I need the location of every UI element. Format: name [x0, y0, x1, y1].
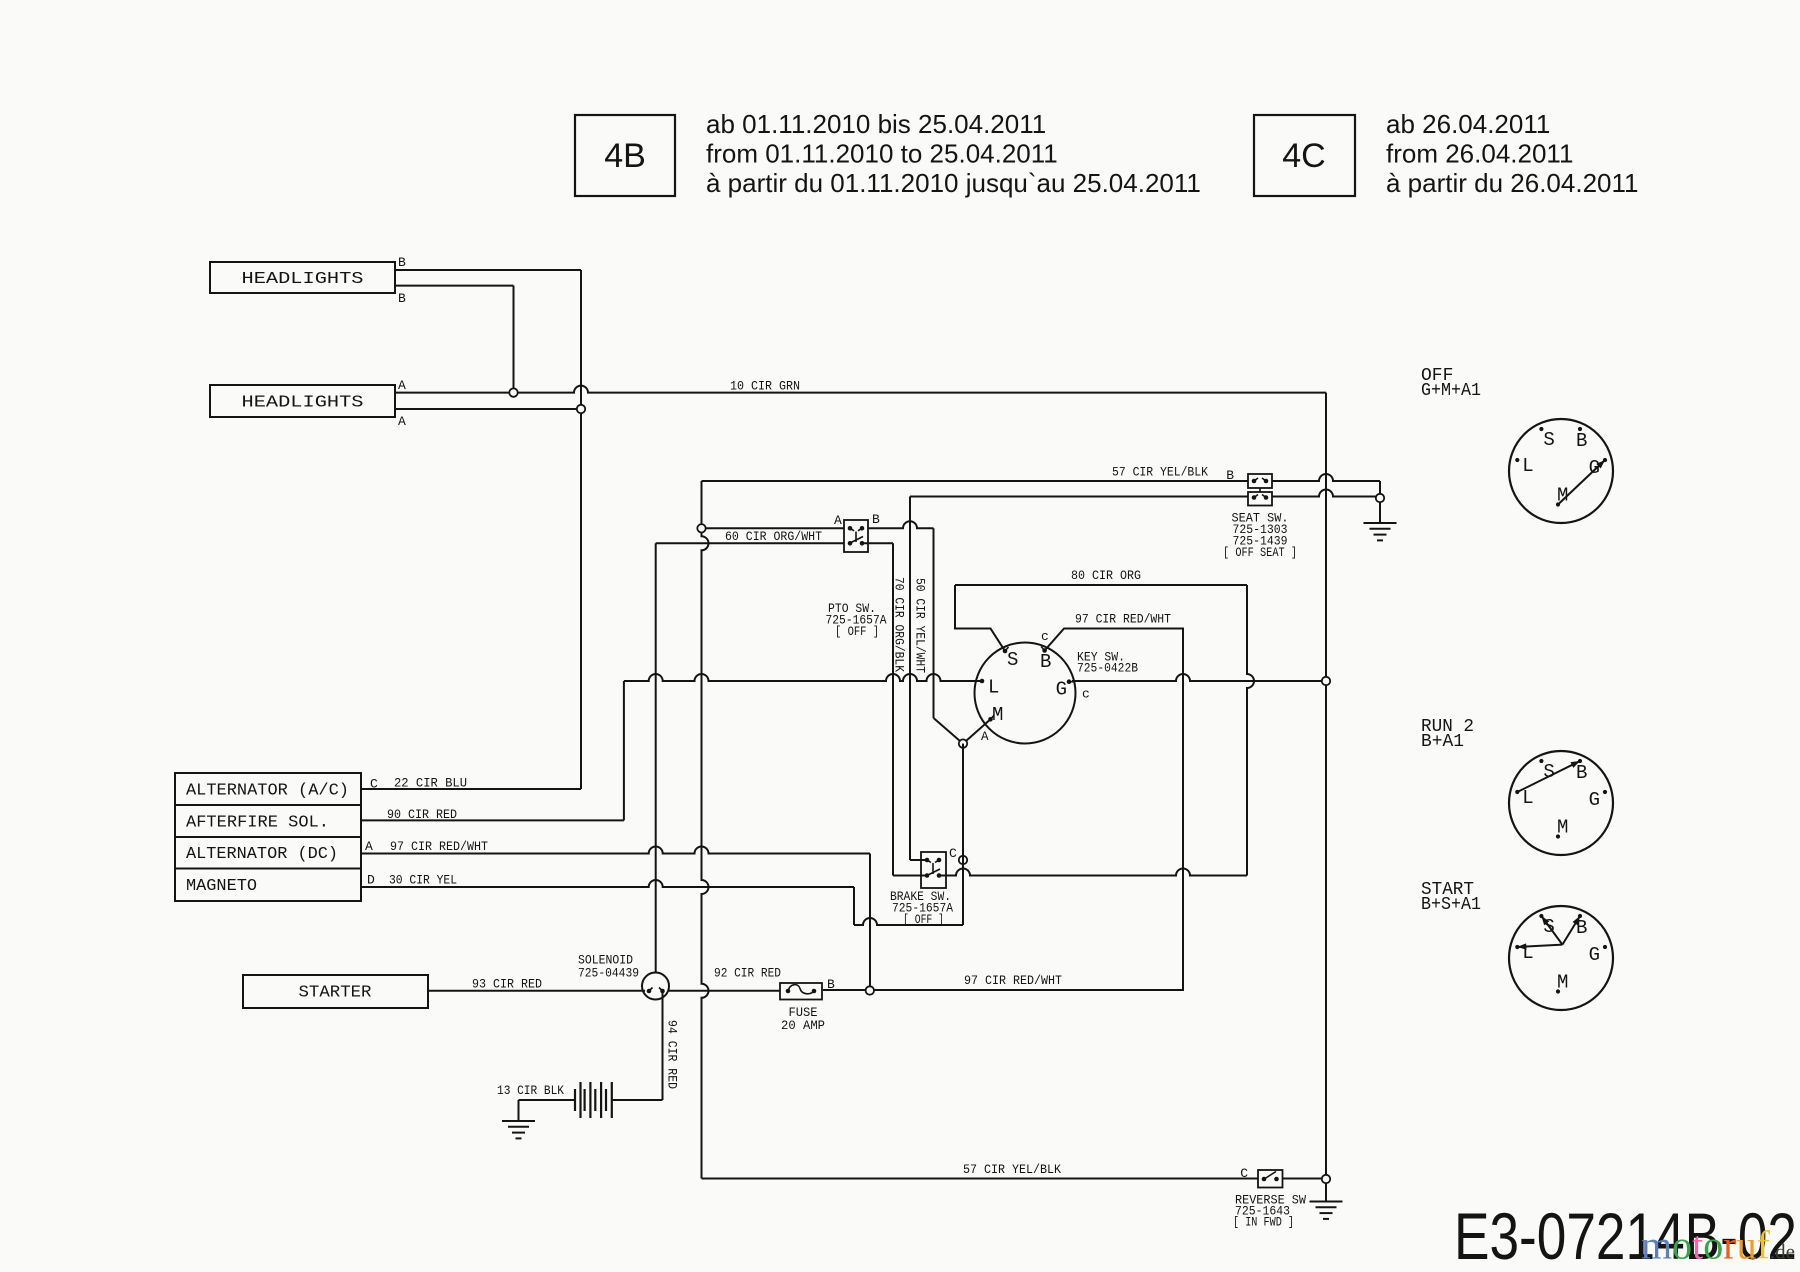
label 90 CIR RED: [387, 807, 457, 822]
wire vertical x910 50 CIR YEL/WHT: [909, 497, 911, 861]
pin label B lower: [398, 291, 406, 306]
wire PTO A to switch: [702, 527, 851, 529]
seat switch SEAT SW. 725-1303: [1248, 474, 1272, 506]
svg-text:B: B: [1040, 651, 1051, 673]
label brake switch: [890, 890, 953, 927]
label fuse: [781, 1006, 825, 1033]
svg-text:50 CIR YEL/WHT: 50 CIR YEL/WHT: [913, 578, 928, 673]
svg-text:97 CIR RED/WHT: 97 CIR RED/WHT: [964, 973, 1062, 988]
component ALTERNATOR (DC): [175, 837, 361, 869]
label 30 CIR YEL: [389, 873, 457, 888]
svg-text:L: L: [988, 677, 999, 699]
junction reverse ground: [1322, 1175, 1330, 1183]
svg-text:from 26.04.2011: from 26.04.2011: [1386, 139, 1573, 169]
wire brake top-left to x910: [910, 859, 927, 861]
wire reverse to ground junction: [1283, 1178, 1327, 1180]
component HEADLIGHTS upper: [210, 262, 395, 293]
wire ground vertical x1326: [1325, 393, 1327, 1179]
svg-text:D: D: [367, 873, 375, 888]
svg-text:HEADLIGHTS: HEADLIGHTS: [242, 393, 364, 412]
label 80 CIR ORG: [1071, 568, 1141, 583]
wire vertical x1247 80CIR to brake: [1247, 585, 1254, 876]
svg-text:G: G: [1056, 679, 1067, 701]
wire 93 CIR RED: [428, 990, 645, 992]
svg-text:L: L: [1522, 787, 1533, 809]
svg-text:[ OFF SEAT ]: [ OFF SEAT ]: [1223, 546, 1297, 560]
svg-text:MAGNETO: MAGNETO: [186, 877, 257, 896]
pin label B upper: [398, 255, 406, 270]
junction seat ground: [1376, 494, 1384, 502]
label 60 CIR ORG/WHT: [725, 529, 822, 544]
wire brake C to 80 CIR ORG riser: [939, 869, 1247, 876]
pin label A alternator DC: [365, 839, 373, 854]
wire x963 key A to brake: [962, 744, 964, 925]
label c near B: [1041, 629, 1049, 644]
wire key S feed: [955, 585, 1005, 651]
pin label D magneto: [367, 873, 375, 888]
svg-text:from 01.11.2010 to 25.04.2011: from 01.11.2010 to 25.04.2011: [706, 139, 1058, 169]
ground reverse switch: [1310, 1183, 1343, 1219]
svg-text:94 CIR RED: 94 CIR RED: [665, 1020, 680, 1089]
wire vertical x893 70 CIR ORG/BLK: [892, 543, 894, 875]
svg-text:B+S+A1: B+S+A1: [1421, 895, 1481, 915]
component HEADLIGHTS lower: [210, 385, 395, 417]
wire brake bottom-left to x893: [893, 875, 927, 877]
svg-text:M: M: [992, 704, 1003, 726]
svg-text:SOLENOID: SOLENOID: [578, 954, 633, 968]
svg-text:[ IN FWD ]: [ IN FWD ]: [1233, 1216, 1294, 1230]
key wire M to A junction: [963, 719, 991, 743]
wire headlights2 pin A bottom: [395, 408, 581, 410]
wire 57 CIR YEL/BLK bottom: [702, 1178, 1259, 1180]
wire vertical x623 bus to 90CIR: [623, 681, 625, 820]
svg-text:G: G: [1589, 944, 1600, 966]
svg-text:M: M: [1557, 972, 1568, 994]
svg-text:C: C: [949, 846, 957, 861]
wire bus key G to ground junction: [1072, 674, 1326, 681]
svg-text:725-0422B: 725-0422B: [1077, 662, 1138, 676]
label 10 CIR GRN: [730, 379, 800, 394]
wire drop to 10 CIR GRN: [513, 286, 515, 393]
wire battery left link: [519, 1099, 576, 1101]
wire vertical x933 key A: [934, 528, 964, 743]
label 13 CIR BLK: [497, 1083, 564, 1098]
key label M: [992, 704, 1003, 726]
svg-text:AFTERFIRE SOL.: AFTERFIRE SOL.: [186, 813, 329, 832]
key switch KEY SW. 725-0422B: [975, 643, 1076, 744]
box 4B: [575, 115, 675, 196]
svg-text:30 CIR YEL: 30 CIR YEL: [389, 873, 457, 888]
label c near G: [1082, 687, 1090, 702]
svg-text:97 CIR RED/WHT: 97 CIR RED/WHT: [390, 839, 488, 854]
label 97 CIR RED/WHT bottom: [964, 973, 1062, 988]
wire 97 CIR RED/WHT left: [361, 847, 870, 991]
svg-text:c: c: [1082, 687, 1090, 702]
svg-text:725-04439: 725-04439: [578, 967, 639, 981]
svg-text:B: B: [398, 255, 406, 270]
junction PTO A x701: [697, 524, 705, 532]
ground battery: [502, 1121, 535, 1138]
svg-text:à partir du 01.11.2010 jusqu`a: à partir du 01.11.2010 jusqu`au 25.04.20…: [706, 168, 1201, 198]
svg-text:[ OFF ]: [ OFF ]: [835, 625, 879, 639]
svg-text:FUSE: FUSE: [789, 1006, 818, 1020]
pin label A lower: [398, 414, 406, 429]
label key position OFF: [1421, 366, 1481, 401]
wire 80 CIR ORG: [955, 584, 1247, 586]
svg-text:L: L: [1522, 455, 1533, 477]
wire 10 CIR GRN: [395, 386, 1326, 393]
svg-text:70 CIR ORG/BLK: 70 CIR ORG/BLK: [892, 577, 907, 672]
wire ground drop battery: [518, 1100, 520, 1121]
label 50 CIR YEL/WHT: [913, 578, 928, 673]
label key switch: [1077, 651, 1138, 676]
svg-text:60 CIR ORG/WHT: 60 CIR ORG/WHT: [725, 529, 822, 544]
label PTO switch: [826, 602, 887, 639]
wire vertical x655 60CIR to solenoid: [655, 543, 657, 973]
svg-text:ab 26.04.2011: ab 26.04.2011: [1386, 109, 1550, 139]
svg-text:S: S: [1007, 649, 1018, 671]
key terminal L: [978, 679, 985, 684]
svg-text:B+A1: B+A1: [1421, 732, 1464, 752]
svg-text:57 CIR YEL/BLK: 57 CIR YEL/BLK: [963, 1162, 1061, 1177]
wire headlights1 pin B top: [395, 269, 581, 271]
svg-text:B: B: [872, 512, 880, 527]
pin label A upper: [398, 378, 406, 393]
label key position RUN 2: [1421, 717, 1474, 752]
junction bus ground x1326: [1322, 677, 1330, 685]
label 97 CIR RED/WHT left: [390, 839, 488, 854]
note dates 4B: [706, 109, 1201, 198]
key terminal M: [988, 715, 994, 721]
wire main bus vertical x581: [580, 270, 582, 789]
svg-text:4C: 4C: [1282, 137, 1325, 175]
svg-text:97 CIR RED/WHT: 97 CIR RED/WHT: [1075, 612, 1171, 627]
svg-text:G: G: [1589, 789, 1600, 811]
label 57 CIR YEL/BLK bottom: [963, 1162, 1061, 1177]
wire 97 CIR RED/WHT key B branch: [823, 629, 1183, 991]
key position OFF circle: [1509, 419, 1613, 523]
label 70 CIR ORG/BLK: [892, 577, 907, 672]
svg-text:G+M+A1: G+M+A1: [1421, 381, 1481, 401]
svg-text:20 AMP: 20 AMP: [781, 1019, 825, 1033]
svg-text:A: A: [398, 414, 406, 429]
pin label C reverse: [1240, 1166, 1248, 1181]
component STARTER: [243, 975, 428, 1008]
wire 70 CIR ORG/BLK top: [862, 542, 893, 544]
wire 57 CIR YEL/BLK top: [702, 474, 1381, 498]
svg-text:ALTERNATOR (DC): ALTERNATOR (DC): [186, 845, 338, 864]
junction 10CIRGRN drop: [509, 388, 517, 396]
svg-text:13 CIR BLK: 13 CIR BLK: [497, 1083, 564, 1098]
reverse switch REVERSE SW 725-1643: [1258, 1170, 1283, 1188]
svg-text:10 CIR GRN: 10 CIR GRN: [730, 379, 800, 394]
svg-text:STARTER: STARTER: [299, 984, 372, 1003]
svg-text:4B: 4B: [604, 137, 646, 175]
label 92 CIR RED: [714, 966, 781, 981]
svg-text:C: C: [1240, 1166, 1248, 1181]
key terminal S: [1003, 647, 1009, 653]
component MAGNETO: [175, 869, 361, 902]
brake switch BRAKE SW. 725-1657A: [921, 852, 946, 888]
key label S: [1007, 649, 1018, 671]
box 4C: [1254, 115, 1355, 196]
label solenoid: [578, 954, 639, 981]
title E3-07214B-02: [1454, 1199, 1797, 1272]
svg-text:S: S: [1543, 429, 1554, 451]
wire bus left to key L: [624, 674, 980, 681]
pin label C alternator AC: [370, 777, 378, 792]
key label G: [1056, 679, 1067, 701]
note dates 4C: [1386, 109, 1638, 198]
svg-text:B: B: [398, 291, 406, 306]
svg-text:ab 01.11.2010 bis 25.04.2011: ab 01.11.2010 bis 25.04.2011: [706, 109, 1046, 139]
label key position START: [1421, 880, 1481, 915]
svg-text:M: M: [1557, 817, 1568, 839]
component ALTERNATOR (A/C): [175, 773, 361, 805]
svg-text:à partir du 26.04.2011: à partir du 26.04.2011: [1386, 168, 1638, 198]
wire 92 CIR RED: [669, 990, 780, 992]
key position START circle: [1509, 906, 1613, 1010]
svg-text:22 CIR BLU: 22 CIR BLU: [394, 776, 467, 791]
key label B: [1040, 651, 1051, 673]
svg-text:B: B: [827, 977, 835, 992]
wire 30 CIR YEL: [361, 880, 854, 925]
wire 94 CIR RED: [662, 993, 664, 1100]
pin label A PTO: [834, 513, 842, 528]
label 97 CIR RED/WHT top: [1075, 612, 1171, 627]
label 93 CIR RED: [472, 977, 542, 992]
wire 22 CIR BLU: [361, 788, 581, 790]
pin label B seat switch: [1226, 468, 1234, 483]
battery: [575, 1082, 612, 1118]
junction headlight A bus: [577, 405, 585, 413]
wire headlights1 pin B bottom: [395, 285, 514, 287]
fuse FUSE 20 AMP: [780, 983, 822, 1000]
svg-text:B: B: [1576, 762, 1587, 784]
pin label C brake: [949, 846, 957, 861]
svg-text:80 CIR ORG: 80 CIR ORG: [1071, 568, 1141, 583]
svg-text:A: A: [398, 378, 406, 393]
svg-text:A: A: [365, 839, 373, 854]
svg-text:HEADLIGHTS: HEADLIGHTS: [242, 270, 364, 289]
junction brake C x963: [959, 856, 967, 864]
solenoid SOLENOID 725-04439: [642, 973, 669, 1000]
junction key A: [959, 739, 967, 747]
svg-text:[ OFF ]: [ OFF ]: [903, 913, 944, 927]
svg-text:57 CIR YEL/BLK: 57 CIR YEL/BLK: [1112, 465, 1208, 480]
svg-text:G: G: [1589, 457, 1600, 479]
svg-text:S: S: [1543, 761, 1554, 783]
label 22 CIR BLU: [394, 776, 467, 791]
component AFTERFIRE SOL.: [175, 805, 361, 837]
svg-text:B: B: [1226, 468, 1234, 483]
PTO switch PTO SW. 725-1657A: [844, 520, 868, 552]
pin label B PTO: [872, 512, 880, 527]
label reverse switch: [1233, 1194, 1306, 1230]
svg-text:A: A: [834, 513, 842, 528]
key position RUN 2 circle: [1509, 751, 1613, 855]
label 57 CIR YEL/BLK top: [1112, 465, 1208, 480]
svg-text:93 CIR RED: 93 CIR RED: [472, 977, 542, 992]
wire magneto link to brake C: [854, 860, 963, 925]
watermark motoruf.de: [1641, 1223, 1795, 1268]
ground seat switch: [1364, 502, 1397, 540]
wire PTO B to x933: [862, 521, 934, 528]
wire 60 CIR ORG/WHT lower: [656, 542, 850, 544]
svg-text:B: B: [1576, 430, 1587, 452]
wire 50 CIR YEL/WHT top: [910, 490, 1380, 497]
key terminal B: [1041, 647, 1047, 653]
junction fuse output: [866, 986, 874, 994]
label seat switch: [1223, 512, 1297, 561]
pin label B fuse: [827, 977, 835, 992]
svg-text:c: c: [1041, 629, 1049, 644]
wire 90 CIR RED: [361, 819, 624, 821]
wire battery right link: [612, 1099, 663, 1101]
key label A: [981, 730, 989, 744]
svg-text:90 CIR RED: 90 CIR RED: [387, 807, 457, 822]
svg-text:ALTERNATOR (A/C): ALTERNATOR (A/C): [186, 781, 349, 800]
svg-text:A: A: [981, 730, 989, 744]
key terminal G: [1067, 679, 1074, 684]
key label L: [988, 677, 999, 699]
svg-text:92 CIR RED: 92 CIR RED: [714, 966, 781, 981]
wire vertical x701 PTO-A/ground loop: [702, 481, 709, 1179]
label 94 CIR RED: [665, 1020, 680, 1089]
